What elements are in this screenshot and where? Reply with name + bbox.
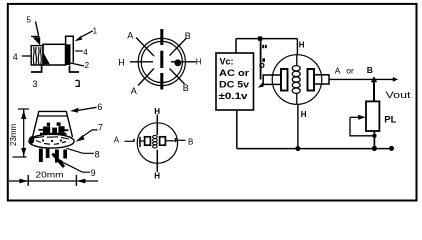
lead wire filled bend inside body xyxy=(43,53,49,65)
right clamp bracket xyxy=(66,36,74,62)
svg-text:B: B xyxy=(188,137,193,146)
heater coil loops xyxy=(153,135,158,138)
base flange xyxy=(29,134,74,148)
svg-text:DC 5v: DC 5v xyxy=(219,80,249,90)
label 3 (right pin, damaged glyph) xyxy=(75,80,79,86)
svg-text:1: 1 xyxy=(93,27,98,36)
pin H right + blob xyxy=(171,61,196,63)
pin legs xyxy=(39,149,43,163)
wire: H bottom to rail xyxy=(297,104,299,148)
pin B top-right xyxy=(170,38,187,56)
outer circle xyxy=(138,38,185,85)
svg-text:7: 7 xyxy=(98,123,103,133)
wire: top rail xyxy=(236,38,298,40)
svg-text:AC or: AC or xyxy=(219,68,250,78)
wire: Vc top to rail xyxy=(235,39,237,53)
connector bumps xyxy=(262,45,264,48)
svg-text:H: H xyxy=(196,57,202,66)
svg-text:±0.1v: ±0.1v xyxy=(219,91,248,101)
wire: B out to Vout xyxy=(329,78,396,80)
svg-text:B: B xyxy=(367,65,373,75)
left electrode plate xyxy=(145,137,151,145)
svg-text:3: 3 xyxy=(33,79,38,89)
svg-text:6: 6 xyxy=(97,102,102,112)
lead into sensor left xyxy=(263,75,281,84)
sensor circle xyxy=(272,55,322,105)
junction node xyxy=(258,36,262,40)
svg-text:or: or xyxy=(346,65,354,75)
pin B bottom-right xyxy=(170,69,185,85)
junction node B xyxy=(371,76,377,82)
svg-text:H: H xyxy=(118,57,125,67)
svg-text:4: 4 xyxy=(13,52,18,62)
svg-text:B: B xyxy=(183,83,189,93)
rail end dot xyxy=(389,146,394,151)
svg-text:Vout: Vout xyxy=(386,90,412,100)
key slot middle xyxy=(160,51,163,68)
Vc source box xyxy=(216,53,254,110)
border frame xyxy=(8,4,417,201)
20mm dimension xyxy=(9,180,98,182)
inner circle xyxy=(141,41,182,82)
svg-text:9: 9 xyxy=(91,168,96,178)
arrowhead Vout xyxy=(393,77,398,82)
cap rim line xyxy=(38,115,68,117)
svg-text:5: 5 xyxy=(27,16,32,25)
wire: drop to electrode A xyxy=(260,39,262,80)
junction dot rail xyxy=(372,146,377,151)
left pin leg xyxy=(31,66,42,73)
internal element blobs xyxy=(43,127,50,134)
svg-text:4: 4 xyxy=(83,48,88,57)
wiper return loop xyxy=(350,117,374,136)
key slot top xyxy=(160,29,163,45)
right electrode plate xyxy=(160,137,166,145)
23mm dimension xyxy=(18,108,29,110)
svg-text:A: A xyxy=(335,65,341,75)
heater coil xyxy=(296,55,298,66)
heater coil box xyxy=(31,46,43,65)
H bottom lead xyxy=(156,150,158,172)
svg-text:23mm: 23mm xyxy=(9,123,18,146)
svg-text:H: H xyxy=(154,172,160,181)
wire: RL bottom stub xyxy=(373,131,375,149)
circle xyxy=(137,123,177,163)
wire: H top xyxy=(296,39,298,55)
wiper arm xyxy=(350,116,360,118)
svg-text:2: 2 xyxy=(85,61,90,70)
junction dot H bottom xyxy=(295,146,300,151)
svg-text:A: A xyxy=(114,136,120,145)
svg-text:Vc:: Vc: xyxy=(220,57,234,67)
svg-text:8: 8 xyxy=(95,150,100,160)
svg-text:20mm: 20mm xyxy=(36,169,64,179)
svg-text:A: A xyxy=(131,86,137,96)
coil hatch xyxy=(32,47,35,65)
svg-text:PL: PL xyxy=(384,114,396,125)
right electrode plate xyxy=(308,69,315,91)
wire: Vc bottom down xyxy=(236,110,238,149)
potentiometer RL body xyxy=(366,101,379,131)
svg-text:H: H xyxy=(301,110,307,119)
svg-text:A: A xyxy=(127,30,133,40)
wire: down to RL xyxy=(373,79,375,101)
svg-text:B: B xyxy=(185,31,191,41)
leader line to coil xyxy=(36,22,39,36)
lead out of sensor right xyxy=(314,75,329,84)
junction dot wiper xyxy=(372,134,376,138)
left electrode plate xyxy=(281,69,288,91)
electrode black bar xyxy=(65,44,71,65)
pin H left xyxy=(130,61,153,63)
wire: bottom rail xyxy=(237,148,392,150)
element body (ceramic tube) xyxy=(43,44,66,65)
right pin leg xyxy=(70,66,80,73)
key slot bottom xyxy=(160,73,163,90)
pin A top-left xyxy=(136,38,154,57)
H top lead xyxy=(156,115,158,136)
housing trapezoid xyxy=(33,111,73,137)
B terminal right xyxy=(166,140,175,142)
pin A bottom-left xyxy=(138,69,154,86)
svg-text:H: H xyxy=(299,40,305,49)
